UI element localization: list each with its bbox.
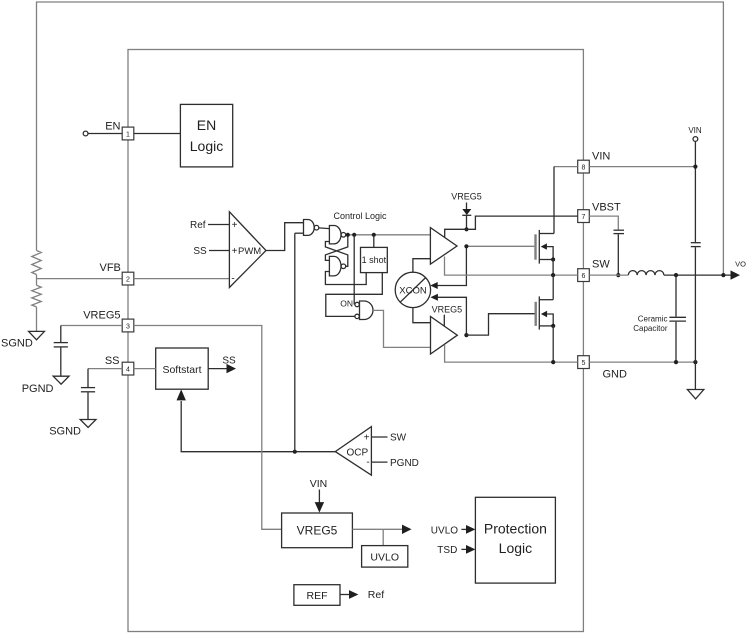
node junction Q dot3: [372, 233, 376, 237]
wire driver2 out sense to XCON (arrow): [434, 297, 467, 335]
wire pin1 to EN Logic: [134, 133, 181, 135]
svg-text:VREG5: VREG5: [297, 524, 338, 538]
wire driver1 gnd tick to SW line: [445, 257, 578, 276]
gate G4 AND (ON gate): [360, 301, 374, 320]
wire pin8 VIN to HS drain: [554, 166, 578, 168]
svg-text:VREG5: VREG5: [451, 192, 482, 202]
svg-text:Capacitor: Capacitor: [633, 324, 668, 333]
svg-text:7: 7: [582, 214, 586, 221]
gate G2 NAND (latch top): [329, 226, 341, 244]
svg-text:SGND: SGND: [1, 338, 33, 350]
svg-text:PGND: PGND: [390, 458, 419, 469]
wire 1shot input: [373, 235, 375, 248]
ground PGND (vreg5 cap): [53, 376, 69, 384]
gate G1 NAND: [304, 220, 315, 236]
svg-text:REF: REF: [307, 590, 328, 602]
svg-text:PGND: PGND: [22, 383, 54, 395]
svg-text:Ceramic: Ceramic: [638, 314, 668, 323]
wire pin2 to PWM inverting input: [134, 278, 230, 280]
wire OCP node to G1 lower input: [294, 233, 296, 452]
svg-text:SS: SS: [105, 355, 120, 367]
svg-text:3: 3: [126, 323, 130, 330]
comparator PWM: [229, 212, 266, 288]
wire latch cross-couple Q to G3: [325, 235, 347, 261]
ground SGND (divider): [29, 331, 45, 339]
wire XCON top to driver1: [413, 259, 431, 273]
block Softstart: [156, 348, 209, 389]
svg-text:SS: SS: [193, 246, 207, 257]
svg-text:2: 2: [126, 277, 130, 284]
wire R2 to SGND: [36, 307, 38, 332]
transistor Q2 low-side NMOS: [535, 302, 537, 326]
wire pin3 to VREG5 bypass cap: [61, 325, 122, 327]
wire pin8 to VIN node: [589, 166, 695, 168]
wire pin3 VREG5 net to regulator: [134, 326, 282, 530]
wire VIN terminal down: [694, 142, 696, 243]
svg-text:UVLO: UVLO: [370, 551, 399, 563]
node driver2 output dot: [464, 333, 468, 337]
node driver1 output dot: [464, 244, 468, 248]
wire XCON bottom to driver2: [413, 308, 431, 323]
ground external: [687, 390, 703, 399]
wire pin5 GND external: [589, 361, 695, 363]
circle XCON: [395, 272, 430, 307]
wire driver2 output to LS gate: [466, 314, 534, 335]
svg-text:UVLO: UVLO: [431, 525, 458, 536]
wire Q1 source to SW: [552, 260, 554, 276]
op-amp driver1 (high side): [430, 228, 457, 265]
svg-text:-: -: [231, 273, 234, 284]
svg-text:EN: EN: [105, 121, 120, 133]
wire Softstart SS output arrow: [208, 368, 226, 370]
wire VO feedback loop (top/right/left): [37, 2, 724, 275]
wire ON gate output to driver2: [373, 310, 431, 347]
svg-text:VREG5: VREG5: [432, 304, 463, 314]
comparator OCP: [335, 427, 371, 476]
wire inductor to VO arrow: [664, 274, 731, 276]
svg-text:TSD: TSD: [437, 545, 457, 556]
svg-text:+: +: [364, 433, 370, 444]
svg-text:SW: SW: [390, 433, 407, 444]
svg-text:PWM: PWM: [238, 246, 261, 257]
resistor R2 (lower feedback divider): [32, 285, 41, 307]
wire REF output arrow: [340, 594, 349, 596]
svg-text:GND: GND: [603, 369, 628, 381]
wire pin7 to bootstrap capacitor: [589, 216, 618, 230]
svg-text:4: 4: [126, 367, 130, 374]
node junction Q dot2: [352, 233, 356, 237]
svg-text:-: -: [366, 457, 369, 468]
svg-text:VO: VO: [735, 260, 746, 269]
wire latch output to driver1: [346, 234, 431, 236]
svg-text:5: 5: [582, 360, 586, 367]
svg-text:+: +: [232, 220, 238, 231]
pin 1 EN: [88, 133, 122, 135]
block UVLO: [362, 546, 408, 568]
svg-text:XCON: XCON: [399, 285, 427, 296]
wire diode node to VBST pin7: [467, 216, 578, 229]
svg-text:SGND: SGND: [49, 426, 81, 438]
wire G1 output to latch: [319, 227, 330, 230]
svg-text:1 shot: 1 shot: [362, 255, 387, 265]
arrow restart into Softstart: [177, 389, 186, 400]
svg-text:6: 6: [582, 273, 586, 280]
wire diode node to driver1 supply tick: [445, 229, 467, 237]
svg-text:VBST: VBST: [592, 201, 621, 213]
wire VFB tap to pin2: [37, 278, 123, 280]
svg-text:+: +: [232, 246, 238, 257]
inductor L1: [628, 271, 664, 275]
capacitor C-VREG5: [54, 342, 68, 344]
gate G3 NAND (latch bottom): [329, 256, 341, 276]
svg-text:SS: SS: [222, 355, 236, 366]
svg-text:VIN: VIN: [310, 478, 328, 490]
wire arrow VIN into VREG5 block: [318, 490, 320, 504]
svg-text:Logic: Logic: [190, 138, 223, 154]
capacitor C-BST: [614, 229, 625, 231]
capacitor C-VIN input: [691, 242, 701, 244]
resistor R1 (upper feedback divider): [32, 251, 41, 275]
svg-text:Softstart: Softstart: [162, 364, 201, 376]
block REF: [294, 585, 340, 606]
svg-text:OCP: OCP: [347, 447, 369, 458]
node junction Q dot1: [346, 233, 350, 237]
wire driver2 supply tick: [443, 315, 445, 326]
svg-text:Ref: Ref: [190, 220, 206, 231]
wire VREG5 output arrow: [352, 528, 402, 530]
svg-text:ON: ON: [340, 299, 353, 309]
capacitor ceramic output: [675, 275, 677, 317]
wire GND node down to ground: [694, 362, 696, 389]
node SW input of OCP: [371, 436, 387, 438]
svg-text:8: 8: [582, 165, 586, 172]
svg-text:VREG5: VREG5: [83, 309, 120, 321]
wire Q2 source to GND: [552, 326, 554, 362]
op-amp driver2 (low side): [431, 317, 458, 355]
wire pin4 to SS cap: [88, 368, 122, 370]
svg-text:Ref: Ref: [368, 589, 384, 601]
wire driver1 output to HS gate: [466, 245, 534, 247]
wire pin4 to Softstart: [134, 368, 156, 370]
block 1 shot: [361, 247, 388, 272]
wire G3 lower input from 1shot: [325, 272, 366, 285]
IC boundary box: [128, 50, 583, 632]
wire R1 to tap: [36, 275, 38, 286]
svg-text:Logic: Logic: [499, 540, 532, 556]
svg-text:VFB: VFB: [99, 262, 120, 274]
wire Q2 drain to SW: [552, 275, 554, 300]
svg-text:VIN: VIN: [592, 151, 610, 163]
node PGND input of OCP: [371, 461, 387, 463]
wire latch cross-couple G3 out to G2: [325, 242, 347, 267]
block VREG5 regulator: [282, 513, 353, 548]
svg-text:VIN: VIN: [688, 126, 702, 135]
wire 1shot output to ON gate: [326, 273, 383, 317]
svg-text:SW: SW: [592, 258, 610, 270]
svg-text:Protection: Protection: [484, 521, 547, 537]
block Protection Logic: [475, 497, 555, 583]
svg-text:1: 1: [126, 131, 130, 138]
node VBST internal junction: [464, 227, 468, 231]
svg-text:Control Logic: Control Logic: [333, 211, 387, 221]
block EN Logic: [180, 104, 232, 166]
svg-text:EN: EN: [197, 117, 216, 133]
wire driver1 out sense to XCON (arrow): [434, 246, 467, 285]
wire VREG5 out to UVLO block: [382, 529, 384, 545]
diode D1 bootstrap: [466, 203, 468, 210]
wire driver2 gnd tick to GND line: [445, 345, 578, 362]
wire pin6 SW to inductor: [589, 274, 628, 276]
transistor Q1 high-side NMOS: [534, 234, 536, 259]
wire latch Q to ON gate top input: [353, 235, 355, 305]
ground SGND (SS cap): [80, 420, 96, 428]
capacitor C-SS: [81, 387, 95, 389]
wire OCP output to softstart and G1: [181, 401, 335, 452]
wire PWM output to gate G1: [266, 223, 304, 251]
